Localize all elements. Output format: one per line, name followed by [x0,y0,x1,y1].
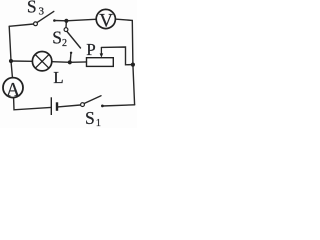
svg-text:V: V [99,11,113,32]
svg-text:S: S [85,108,95,128]
svg-text:P: P [86,40,95,59]
svg-text:3: 3 [39,5,45,17]
svg-text:1: 1 [96,118,101,128]
svg-text:2: 2 [62,38,67,49]
svg-text:A: A [6,80,20,101]
svg-text:S: S [52,28,62,48]
svg-text:L: L [53,68,63,87]
svg-text:S: S [27,0,37,17]
